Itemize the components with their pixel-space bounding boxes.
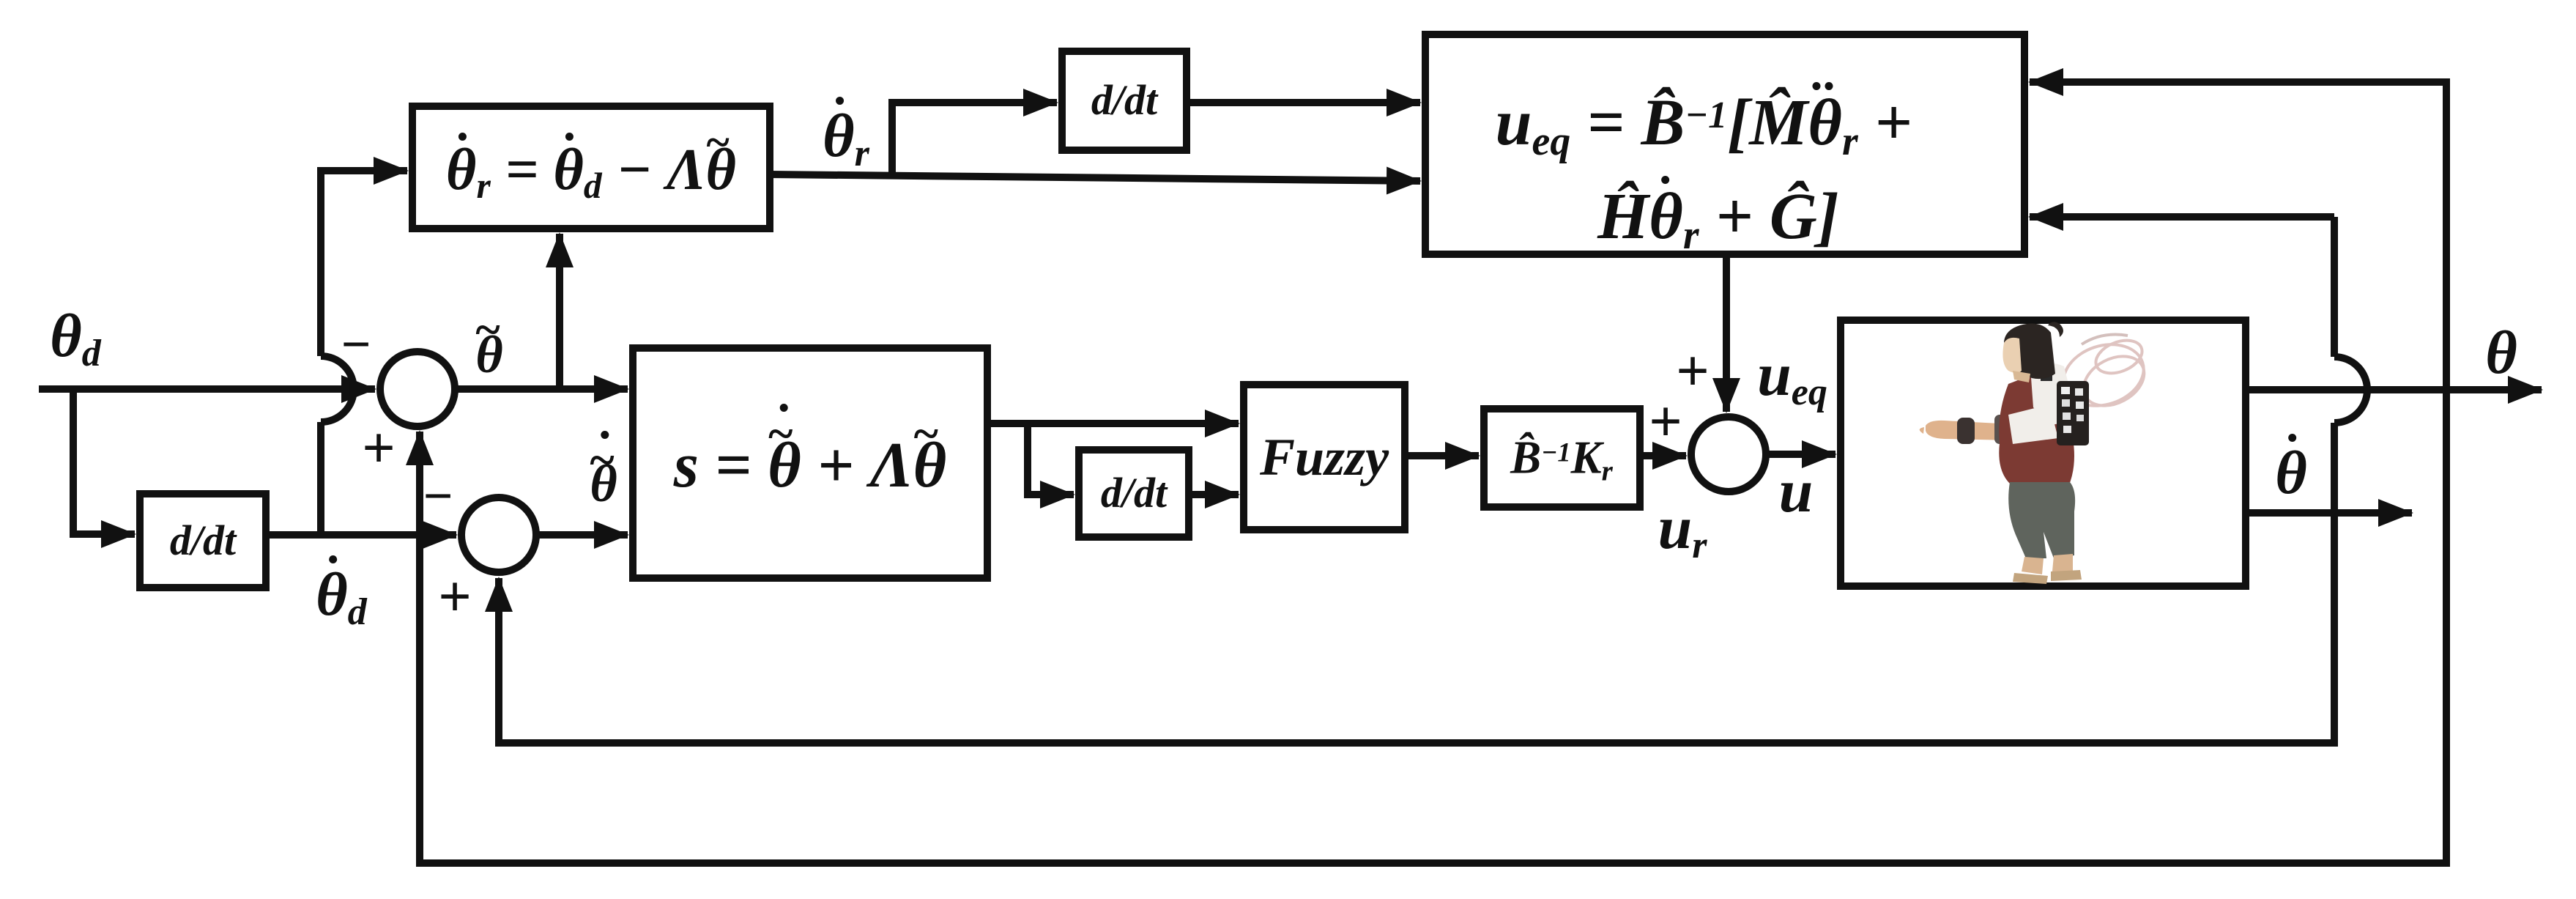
block B-1Kr text	[1510, 435, 1613, 481]
node theta_d input label	[50, 306, 101, 367]
node theta tilde dot label	[590, 457, 617, 510]
node u_eq label	[1757, 344, 1827, 406]
block d/dt mid text	[1101, 472, 1167, 514]
block u_eq equation line 1	[1495, 90, 1912, 156]
block: u_eq equation box	[1425, 34, 2024, 254]
block u_eq equation line 2	[1597, 184, 1839, 250]
sign plus at junction 1	[362, 419, 396, 478]
node theta_dot output label	[2275, 443, 2307, 504]
extended arm	[1926, 421, 2013, 440]
sign minus at junction 1	[341, 318, 371, 371]
block d/dt top text	[1091, 79, 1157, 122]
wire: theta_dot_r branch up through d/dt top box	[892, 103, 1057, 176]
lower legs / feet	[2022, 557, 2044, 574]
torso maroon	[1999, 374, 2074, 487]
block: d/dt left	[140, 494, 266, 588]
wire: Fuzzy output to B-1Kr block	[1405, 452, 1479, 459]
wire: theta_d input line into summing junction 1	[39, 385, 375, 393]
block S: sliding surface box	[633, 348, 987, 578]
block: d/dt mid	[1079, 450, 1189, 537]
node u_r label	[1658, 497, 1707, 559]
node theta_dot_d label	[316, 564, 367, 626]
wire: plant output theta with arrow	[2246, 386, 2542, 393]
wire: theta feedback down and along bottom to summing junction 1	[420, 390, 2446, 863]
sign plus at junction 3 top	[1676, 342, 1710, 401]
wire: d/dt mid output to Fuzzy	[1189, 491, 1239, 498]
wire: summing junction 1 output (theta tilde) to block S	[455, 385, 628, 393]
wire: theta_dot_d vertical up to block A with bridge hop over theta_d line	[321, 171, 407, 534]
wire: summing junction 2 output to block S lower input	[536, 531, 628, 539]
scribble circles behind back	[2055, 334, 2153, 415]
wire: block A output theta_dot_r to u_eq block	[770, 174, 1420, 181]
wrist bands	[1957, 418, 1975, 444]
wire: d/dt top output to u_eq block	[1187, 99, 1420, 106]
wire: block S output to Fuzzy	[987, 420, 1239, 427]
block A equation text	[446, 141, 736, 199]
wire: u_eq block bottom down into summing junction 3	[1723, 254, 1730, 412]
block Fuzzy text	[1260, 431, 1389, 484]
white shoulder piece with straps	[2030, 363, 2074, 425]
sign minus at junction 2	[423, 470, 453, 522]
wire: theta tilde branch up into block A bottom	[556, 234, 563, 389]
block d/dt left text	[170, 519, 236, 562]
wire: theta_d branch down to d/dt box 1	[73, 389, 135, 534]
node theta output label	[2485, 322, 2517, 384]
wire: B-1Kr output u_r to summing junction 3	[1640, 452, 1686, 459]
node theta tilde label	[475, 328, 502, 381]
summing junction 2	[461, 497, 536, 572]
wire: d/dt box1 output to summing junction 2	[266, 531, 456, 539]
block: B-1 Kr gain	[1484, 409, 1640, 507]
wire: theta_dot feedback top into u_eq right input 2	[2030, 213, 2334, 221]
summing junction 3	[1691, 417, 1766, 492]
wire: theta_dot feedback vertical with bridge hop over theta line	[499, 217, 2367, 743]
block: d/dt top	[1062, 51, 1187, 150]
pants	[2008, 482, 2075, 558]
wire: branch down through d/dt mid box	[1028, 423, 1074, 495]
hair curls	[2048, 322, 2063, 337]
block S equation text	[674, 434, 947, 498]
head	[2004, 324, 2055, 380]
node u label	[1779, 461, 1814, 522]
sign plus at junction 3 left	[1649, 393, 1682, 451]
white sleeve	[2008, 404, 2058, 444]
wire: summing junction 3 output u to plant	[1766, 451, 1836, 458]
neck shadow	[2013, 371, 2030, 382]
block: Fuzzy	[1244, 385, 1405, 530]
block: plant (exoskeleton wearer)	[1841, 320, 2246, 586]
face	[2002, 338, 2022, 373]
backpack frame	[2057, 381, 2089, 445]
node theta_dot_r label	[823, 106, 869, 167]
summing junction 1	[380, 352, 455, 426]
hand	[1920, 427, 1924, 434]
block A: theta_dot_r equation box	[412, 106, 770, 229]
wire: theta feedback up to u_eq right input 1	[2030, 82, 2446, 390]
sign plus at junction 2	[438, 568, 472, 626]
wire: plant output theta_dot with arrow	[2246, 509, 2412, 517]
